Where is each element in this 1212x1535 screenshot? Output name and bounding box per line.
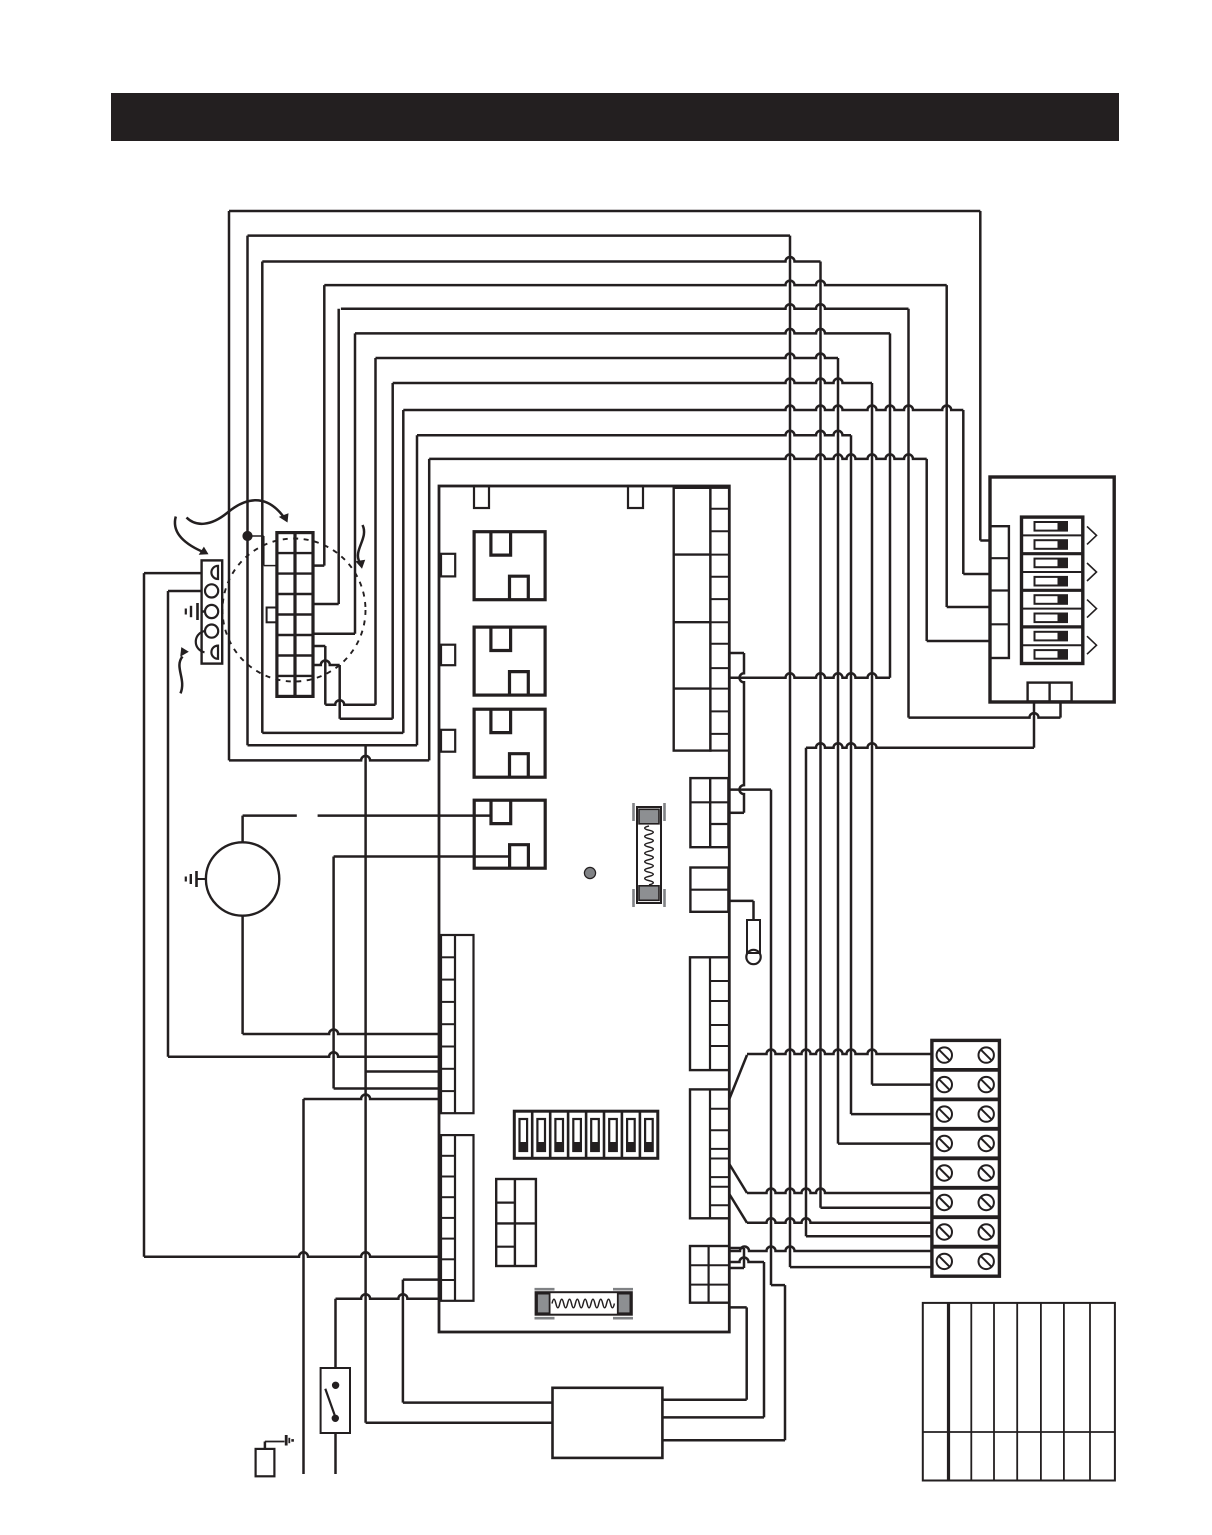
sensor pill <box>729 901 760 964</box>
test point dot <box>584 867 595 878</box>
wire connector row7 to loop8 <box>313 383 393 719</box>
relay K1 <box>474 532 545 600</box>
board left notch 1 <box>441 554 455 577</box>
wire T2 board to transformer <box>662 1258 764 1418</box>
jumper arc TB1 4-5 <box>196 631 205 652</box>
arrow to block bottom <box>179 647 188 693</box>
board column F <box>441 935 474 1113</box>
terminal screws <box>937 1047 994 1269</box>
board block A <box>690 778 728 847</box>
arrow to terminal block <box>175 517 209 555</box>
dip switch S2 strip <box>514 1111 658 1158</box>
wire rail1 block row1 to board <box>144 573 439 1257</box>
wire connector row6 to loop7 <box>313 358 376 705</box>
wire loop2 right drop to terminal row8b <box>790 236 932 1268</box>
terminal block TB1 <box>202 560 223 663</box>
board block D <box>690 1089 729 1218</box>
wire board diag to terminal row1 <box>729 1050 932 1100</box>
plug P1 <box>256 1435 294 1476</box>
wire loop 11 top run <box>429 454 927 459</box>
wire loop8 right drop to terminal row2 <box>872 383 932 1085</box>
dip switch S1 <box>1022 517 1083 663</box>
dip module box <box>990 477 1114 702</box>
dip pair chevrons <box>1087 526 1097 654</box>
arrow to connector top <box>187 500 289 524</box>
dip module pin column <box>990 526 1009 658</box>
wire loop 10 top run <box>417 431 851 436</box>
relay K3 <box>474 709 545 777</box>
wire board diag to terminal row7a <box>729 1194 932 1223</box>
wire loop9 right drop to dip pin2 <box>963 410 990 574</box>
board block H <box>496 1179 536 1266</box>
wire U-turn loop1-loop11 <box>229 211 429 760</box>
board top notch 2 <box>628 486 643 508</box>
ground G2 at motor <box>186 871 206 887</box>
wire motor bottom to board <box>243 916 439 1034</box>
transformer T1 box <box>553 1388 663 1458</box>
wire switch riser <box>336 1294 440 1368</box>
fuse F1 <box>634 803 665 907</box>
wire board diag to terminal row6a <box>729 1164 932 1193</box>
wire U-turn loop2-loop10 <box>248 236 418 746</box>
board connector column wide <box>674 488 711 751</box>
wire loop 3 top run <box>262 257 820 262</box>
wire loop6 to connector row5 <box>313 333 355 633</box>
wire rail2 block row2 to board <box>168 591 439 1057</box>
relay K2 <box>474 627 545 695</box>
main control board <box>439 486 729 1332</box>
switch SW1 box <box>321 1368 350 1433</box>
wire loop 5 top run <box>341 304 909 309</box>
wire board edge to v771 <box>729 788 771 791</box>
wire v365 to transformer <box>366 745 553 1423</box>
terminal TB1-1 <box>211 566 218 579</box>
board top notch 1 <box>474 486 489 508</box>
wire loop 6 top run <box>355 329 890 334</box>
arrow right S-curve <box>355 525 365 569</box>
board block C <box>690 957 729 1070</box>
wire loop1 right drop to dip pin1 <box>980 211 990 541</box>
wire v402 to transformer <box>403 1280 553 1403</box>
legend table <box>923 1303 1115 1481</box>
wire loop4 right drop to dip pin3 <box>947 285 990 607</box>
wire board bracket x744 <box>729 653 744 813</box>
terminal TB1-4 <box>205 625 218 638</box>
terminal TB1-3 <box>205 605 218 618</box>
wire board staple <box>729 1248 744 1268</box>
highlight dashed circle <box>223 539 366 682</box>
connector J1 grid <box>277 533 313 697</box>
title bar <box>111 93 1119 141</box>
wire loop 8 top run <box>393 379 872 384</box>
terminal TB1-2 <box>205 584 218 597</box>
board block E <box>690 1246 729 1303</box>
wire loop7 right drop to terminal row4 <box>838 358 932 1144</box>
wire dip box to terminal row7b <box>806 702 1034 1237</box>
wire loop 7 top run <box>376 354 839 359</box>
wire loop5 right drop to dip bottom box <box>909 309 1061 718</box>
wire loop10 right drop to terminal row3 <box>851 435 932 1114</box>
wire loop 9 top run <box>403 406 963 411</box>
wire loop 1 top run <box>229 210 980 213</box>
fuse F2 <box>535 1289 634 1318</box>
board left notch 2 <box>441 645 455 666</box>
board column G <box>441 1135 474 1301</box>
wire loop3 right drop to terminal row6b <box>821 262 932 1208</box>
wire loop5 to connector row4 <box>313 309 339 604</box>
wire v365 branch into board <box>366 1070 439 1073</box>
wire loop 2 top run <box>248 234 791 237</box>
wire v333 to relay R4 contact <box>334 857 509 1089</box>
terminal strip TS1 <box>932 1040 1000 1276</box>
board connector column narrow <box>710 488 729 751</box>
wire v303 long drop <box>304 1095 440 1475</box>
switch SW1 contacts <box>325 1383 338 1421</box>
terminal TB1-5 <box>211 646 218 659</box>
wire loop6 right drop to board edge <box>729 333 890 677</box>
wire motor top to relay R4 coil <box>243 816 491 843</box>
relay K4 <box>474 800 545 868</box>
connector J1 left pin box <box>267 608 277 623</box>
wire T1 board to transformer <box>662 1307 746 1399</box>
board block B <box>690 868 728 912</box>
junction dot J1 wire <box>244 532 277 566</box>
wire loop11 right drop to dip pin4 <box>927 459 990 641</box>
wire board to terminal row8a <box>729 1247 932 1252</box>
dip module bottom box <box>1028 683 1072 702</box>
wire v771 transformer drop <box>662 790 785 1441</box>
wire loop 4 top run <box>324 281 946 286</box>
ground G1 motor <box>186 603 206 620</box>
wire U-turn loop3-loop9 <box>262 262 403 733</box>
wire switch bottom <box>334 1433 337 1474</box>
board left notch 3 <box>441 730 455 752</box>
motor M1 <box>206 842 279 915</box>
wire loop4 to connector row2 <box>313 285 324 565</box>
